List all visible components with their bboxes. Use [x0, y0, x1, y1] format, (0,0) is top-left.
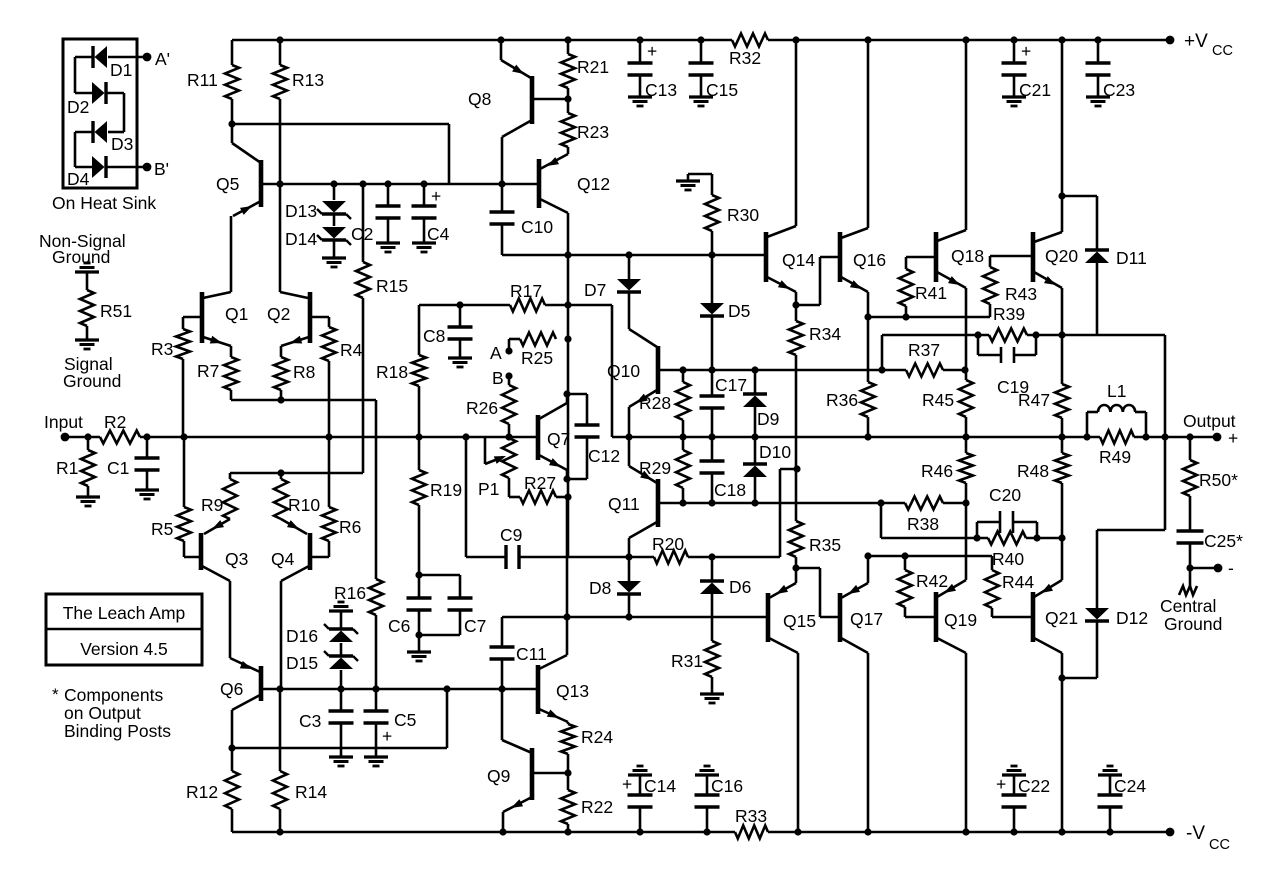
node junction bus Q15: [794, 828, 801, 835]
node junction C6/C7 bottom: [415, 631, 422, 638]
node junction D6/R20: [708, 553, 715, 560]
node junction bus x796: [792, 36, 799, 43]
node Output terminal: [1213, 433, 1222, 442]
node junction C25 bottom: [1186, 564, 1193, 571]
svg-text:C1: C1: [107, 458, 129, 478]
wire center rail right: [612, 436, 1100, 439]
wire Q17 base jog: [796, 567, 820, 570]
ground below D14: [333, 241, 336, 258]
wire Q16 base jog: [796, 304, 820, 307]
wire -Vcc bottom bus: [232, 831, 735, 834]
wire Q6 collector down: [231, 710, 234, 748]
node junction Q16 emitter y317: [864, 313, 871, 320]
wire R4 to rail: [328, 361, 331, 437]
node junction bus R22: [564, 828, 571, 835]
svg-text:Q8: Q8: [468, 89, 491, 109]
svg-text:Q1: Q1: [225, 304, 248, 324]
svg-text:R5: R5: [151, 519, 173, 539]
resistor R33: [735, 826, 768, 839]
node junction rail C17/C18: [708, 433, 715, 440]
potentiometer P1: [502, 438, 516, 478]
svg-text:+: +: [431, 186, 441, 206]
non-signal ground symbol: [75, 270, 99, 273]
wire Q5 base line: [261, 183, 539, 186]
node junction L1 left: [1083, 433, 1090, 440]
node junction C4 top: [420, 180, 427, 187]
node minus terminal: [1214, 564, 1223, 573]
svg-text:+: +: [1021, 41, 1031, 61]
wire R7/R8 common: [231, 399, 376, 402]
transistor Q9: [530, 748, 535, 800]
resistor R11: [231, 40, 234, 65]
diode D11: [1085, 248, 1109, 251]
diode D10: [754, 437, 757, 464]
capacitor C25: [1189, 496, 1192, 531]
resistor R36: [867, 317, 870, 382]
zener diode D16: [340, 611, 343, 629]
svg-text:R14: R14: [295, 782, 327, 802]
svg-text:C6: C6: [388, 616, 410, 636]
wire Q3 collector down: [229, 581, 232, 658]
node junction bus C13: [636, 36, 643, 43]
svg-text:R6: R6: [339, 517, 361, 537]
svg-text:C7: C7: [464, 616, 486, 636]
resistor R28: [679, 366, 686, 373]
node junction bus R21: [564, 36, 571, 43]
svg-text:D16: D16: [286, 626, 318, 646]
svg-text:C17: C17: [715, 375, 747, 395]
capacitor C5 polarized: [375, 689, 378, 711]
node junction C8: [456, 301, 463, 308]
node junction D12 jog: [1058, 674, 1065, 681]
svg-text:Q16: Q16: [853, 250, 886, 270]
svg-text:R10: R10: [288, 495, 320, 515]
resistor R2: [100, 431, 140, 444]
node junction rail D11/D12: [1161, 433, 1168, 440]
svg-text:R23: R23: [577, 122, 609, 142]
heat sink box outline: [63, 39, 137, 188]
node junction bus C16: [703, 828, 710, 835]
diode D7: [625, 251, 632, 258]
transistor Q17: [867, 556, 870, 583]
svg-text:Central: Central: [1160, 596, 1216, 616]
svg-text:D4: D4: [67, 169, 90, 189]
node junction R48 bottom: [1058, 534, 1065, 541]
svg-text:R19: R19: [430, 480, 462, 500]
wire D11 to rail: [1097, 334, 1165, 337]
node junction rail R28/R29: [679, 433, 686, 440]
svg-text:R9: R9: [201, 495, 223, 515]
resistor R37: [878, 366, 885, 373]
diode D8: [628, 557, 631, 581]
resistor R9: [229, 473, 232, 479]
svg-text:R18: R18: [376, 362, 408, 382]
wire Q9 base: [532, 772, 568, 775]
resistor R44: [991, 556, 994, 570]
svg-text:D7: D7: [584, 280, 606, 300]
capacitor C24: [1098, 773, 1122, 776]
svg-text:B': B': [154, 159, 169, 179]
node junction L1 right: [1142, 433, 1149, 440]
svg-text:R28: R28: [639, 393, 671, 413]
resistor R50: [1186, 433, 1193, 440]
wire to minus terminal: [1190, 567, 1218, 570]
transistor Q10: [629, 329, 657, 347]
wire C9 branch: [465, 437, 468, 557]
node junction bus R14: [276, 828, 283, 835]
node junction y689 R16: [372, 685, 379, 692]
svg-text:+V: +V: [1184, 31, 1208, 52]
wire R43 top to Q20 base: [990, 255, 1033, 258]
svg-text:Q3: Q3: [225, 549, 248, 569]
capacitor C3: [340, 689, 343, 711]
node junction bus Q9: [499, 828, 506, 835]
node junction rail R45/R46: [962, 433, 969, 440]
node junction y748: [228, 744, 235, 751]
ground below C8: [448, 356, 472, 359]
svg-text:R24: R24: [581, 727, 613, 747]
resistor R3: [182, 317, 185, 329]
resistor R38: [877, 499, 884, 506]
node junction rail R36: [864, 433, 871, 440]
svg-text:C18: C18: [714, 480, 746, 500]
node junction R25 right: [564, 335, 571, 342]
svg-text:R17: R17: [510, 281, 542, 301]
node A-prime: [143, 53, 152, 62]
wire R34 down driver line: [795, 355, 798, 469]
resistor R1: [87, 437, 90, 450]
svg-text:C11: C11: [516, 644, 547, 664]
svg-text:R4: R4: [340, 340, 363, 360]
node junction rail R4/R6: [325, 433, 332, 440]
ground below C3: [329, 755, 353, 758]
transistor Q16: [867, 40, 870, 228]
svg-text:R21: R21: [577, 57, 609, 77]
svg-text:Q4: Q4: [271, 549, 295, 569]
svg-text:D2: D2: [67, 97, 89, 117]
node junction R24/R22 Q9 base: [567, 754, 570, 790]
wire R3 to rail: [182, 359, 185, 437]
node junction R15 top: [359, 180, 366, 187]
svg-text:C8: C8: [423, 326, 445, 346]
wire to Q8 base: [232, 123, 449, 126]
node junction C6/C7 top: [415, 571, 422, 578]
node junction Q7 emitter: [563, 475, 570, 482]
transistor Q5: [259, 160, 264, 207]
wire R15 down to R9/R10 node: [362, 298, 365, 473]
resistor R42: [901, 552, 908, 559]
svg-text:CC: CC: [1212, 43, 1233, 59]
svg-text:D1: D1: [110, 60, 132, 80]
svg-text:R7: R7: [197, 361, 219, 381]
svg-text:C10: C10: [521, 217, 553, 237]
diode D1: [108, 56, 147, 59]
node junction C2 top: [384, 180, 391, 187]
svg-text:+: +: [996, 774, 1006, 794]
svg-text:R34: R34: [809, 324, 841, 344]
capacitor C6: [418, 575, 421, 598]
svg-text:R39: R39: [993, 304, 1025, 324]
svg-text:C2: C2: [351, 224, 373, 244]
capacitor C4 polarized: [423, 184, 426, 206]
wire Q1 base: [183, 316, 202, 319]
wire y556: [868, 555, 992, 558]
ground below R1: [87, 486, 90, 497]
resistor R17: [510, 299, 545, 312]
zener diode D15: [340, 643, 343, 656]
wire D12 to rail: [1097, 529, 1165, 532]
ground below C4: [412, 241, 436, 244]
ground below C13: [628, 95, 652, 98]
svg-text:Q7: Q7: [547, 429, 570, 449]
node junction R27 right: [556, 496, 568, 499]
wire R17 line y305: [419, 304, 510, 307]
resistor R25: [509, 338, 520, 341]
svg-text:R27: R27: [524, 473, 556, 493]
svg-text:Q15: Q15: [783, 611, 816, 631]
svg-text:R37: R37: [908, 340, 940, 360]
node junction y617: [563, 613, 570, 620]
svg-text:C5: C5: [394, 710, 416, 730]
svg-text:C4: C4: [427, 224, 450, 244]
capacitor C18: [711, 437, 714, 461]
node junction R47 top: [1058, 331, 1065, 338]
svg-text:C20: C20: [989, 485, 1021, 505]
diode D5: [711, 255, 714, 303]
resistor R43: [989, 256, 992, 267]
svg-text:D9: D9: [757, 409, 779, 429]
wire: [74, 132, 77, 167]
svg-text:R48: R48: [1017, 461, 1049, 481]
wire R13 down to Q2: [279, 99, 282, 292]
capacitor C22 polarized: [1002, 773, 1026, 776]
svg-text:Q9: Q9: [487, 766, 510, 786]
node junction y184: [498, 180, 505, 187]
capacitor C7: [419, 574, 460, 577]
svg-text:Q18: Q18: [951, 246, 984, 266]
svg-text:D12: D12: [1116, 608, 1148, 628]
svg-text:Q20: Q20: [1045, 246, 1078, 266]
transistor Q20: [1061, 40, 1064, 232]
wire Q8 collector down: [501, 137, 504, 184]
wire Q4 base: [310, 556, 329, 559]
resistor R13: [279, 40, 282, 65]
capacitor C13 polarized: [639, 40, 642, 63]
capacitor C12 across Q7: [567, 393, 587, 396]
node junction C20 left: [973, 534, 980, 541]
node junction y255 R30/D5: [708, 251, 715, 258]
svg-text:R46: R46: [921, 461, 953, 481]
zener diode D13: [333, 184, 336, 200]
capacitor C20 parallel hook: [976, 522, 979, 538]
diode D4: [75, 166, 93, 169]
svg-text:Components: Components: [64, 685, 163, 705]
node junction x1062 jog: [1058, 192, 1065, 199]
diode D9: [751, 366, 758, 373]
resistor R14: [279, 689, 282, 771]
title box: [46, 594, 202, 665]
svg-text:R8: R8: [293, 362, 315, 382]
ground below C6/C7: [418, 635, 421, 652]
node junction below R11: [231, 99, 234, 143]
node junction bus x1062: [1058, 36, 1065, 43]
svg-text:R20: R20: [652, 534, 684, 554]
transistor Q19: [965, 503, 968, 580]
resistor R4: [328, 317, 331, 327]
svg-text:R25: R25: [521, 348, 553, 368]
svg-text:A': A': [155, 49, 170, 69]
svg-text:Q14: Q14: [782, 250, 815, 270]
capacitor C1: [146, 437, 149, 458]
transistor Q13: [536, 665, 541, 714]
resistor R6: [328, 437, 331, 507]
svg-text:Q6: Q6: [220, 679, 243, 699]
transistor Q12: [567, 147, 570, 154]
node junction bus Q21: [1058, 828, 1065, 835]
capacitor C16: [695, 773, 719, 776]
node junction R37 right: [961, 366, 968, 373]
ground below C15: [689, 95, 713, 98]
resistor R30 with ground hook: [711, 174, 714, 195]
node junction rail R47/R48: [1058, 433, 1065, 440]
svg-text:D11: D11: [1116, 248, 1147, 268]
transistor Q15: [795, 568, 798, 583]
svg-text:R3: R3: [151, 339, 173, 359]
node junction bus C22: [1010, 828, 1017, 835]
ground below C23: [1086, 95, 1110, 98]
wire R9/R10 common: [230, 472, 363, 475]
resistor R39: [989, 329, 1027, 342]
resistor R45: [965, 370, 968, 380]
svg-text:R35: R35: [809, 535, 841, 555]
diode D3: [108, 131, 124, 134]
resistor R12: [231, 748, 234, 771]
node junction Q14 emitter R34: [792, 301, 799, 308]
svg-text:D6: D6: [729, 577, 751, 597]
resistor R16: [369, 579, 383, 615]
svg-text:R43: R43: [1005, 284, 1037, 304]
resistor R32: [732, 34, 768, 47]
wire Q4 collector down: [280, 581, 283, 689]
inductor L1: [1086, 412, 1089, 437]
svg-text:D3: D3: [111, 134, 133, 154]
transistor Q18: [965, 40, 968, 230]
resistor R23: [561, 113, 575, 147]
resistor R29: [682, 437, 685, 450]
wire y317: [868, 316, 990, 319]
node junction y503 C18: [708, 499, 715, 506]
svg-text:-V: -V: [1186, 823, 1205, 844]
resistor R41: [902, 313, 909, 320]
ground below C2: [376, 241, 400, 244]
signal ground symbol: [86, 326, 89, 340]
capacitor C8: [459, 305, 462, 327]
svg-text:R41: R41: [915, 283, 947, 303]
svg-text:R33: R33: [735, 806, 767, 826]
ground below C21: [1002, 95, 1026, 98]
svg-text:Q10: Q10: [607, 361, 640, 381]
node junction y503 R46: [962, 499, 969, 506]
svg-text:R29: R29: [639, 458, 671, 478]
resistor R46: [965, 437, 968, 453]
wire R5 to Q3 base: [183, 541, 186, 557]
transistor Q3: [199, 533, 204, 570]
svg-text:on Output: on Output: [64, 703, 141, 723]
svg-text:R31: R31: [671, 651, 703, 671]
node junction bus x966: [962, 36, 969, 43]
node point A: [508, 339, 511, 351]
capacitor C2: [387, 184, 390, 206]
node junction bus C15: [697, 36, 704, 43]
node junction C19 left: [974, 331, 981, 338]
svg-text:*: *: [52, 685, 59, 704]
capacitor C14 polarized: [628, 773, 652, 776]
svg-text:R16: R16: [334, 583, 366, 603]
node junction y689 D15: [337, 685, 344, 692]
diode D2: [75, 92, 93, 95]
wire y335 R39 line: [1027, 334, 1097, 337]
ground below C5: [364, 755, 388, 758]
svg-text:R15: R15: [376, 276, 408, 296]
svg-text:R26: R26: [466, 398, 498, 418]
node junction C10/Q12: [564, 251, 571, 258]
resistor R26: [508, 376, 511, 385]
svg-text:Input: Input: [44, 412, 83, 432]
svg-text:A: A: [490, 343, 502, 363]
svg-text:R51: R51: [100, 301, 132, 321]
svg-text:+: +: [1228, 428, 1238, 448]
svg-text:Ground: Ground: [1164, 614, 1222, 634]
node junction rail Q10: [625, 433, 632, 440]
svg-text:Binding Posts: Binding Posts: [64, 721, 171, 741]
svg-text:D13: D13: [285, 201, 317, 221]
resistor R8: [280, 346, 283, 357]
svg-text:R40: R40: [992, 549, 1024, 569]
node B-prime: [143, 163, 152, 172]
svg-text:B: B: [492, 368, 504, 388]
svg-text:R47: R47: [1018, 390, 1050, 410]
wire x567 down: [566, 497, 569, 617]
svg-text:C9: C9: [500, 525, 522, 545]
node junction C1: [143, 433, 150, 440]
svg-text:Q17: Q17: [850, 609, 883, 629]
node junction bus R13: [276, 36, 283, 43]
central ground symbol: [1189, 568, 1192, 586]
resistor R27: [520, 491, 556, 504]
node junction R35 bottom: [792, 564, 799, 571]
resistor R19: [418, 437, 421, 470]
capacitor C9: [504, 545, 507, 569]
svg-text:R12: R12: [186, 782, 218, 802]
svg-text:P1: P1: [478, 479, 499, 499]
svg-text:Ground: Ground: [52, 247, 110, 267]
svg-text:Ground: Ground: [63, 371, 121, 391]
wire C9 to R20: [519, 556, 654, 559]
node junction R8 bottom: [277, 396, 284, 403]
svg-text:C12: C12: [588, 446, 620, 466]
node junction y689 R14: [276, 685, 283, 692]
node junction rail R18/R19: [415, 433, 422, 440]
node junction rail R3/R5: [180, 433, 187, 440]
wire Q8 base: [532, 98, 568, 101]
svg-text:Q12: Q12: [577, 174, 610, 194]
svg-text:D10: D10: [759, 442, 791, 462]
wire R38 hook down to R40 line: [880, 503, 883, 538]
transistor Q2: [308, 292, 313, 343]
capacitor C15: [700, 40, 703, 63]
node junction bus C24: [1106, 828, 1113, 835]
svg-text:R2: R2: [104, 412, 126, 432]
